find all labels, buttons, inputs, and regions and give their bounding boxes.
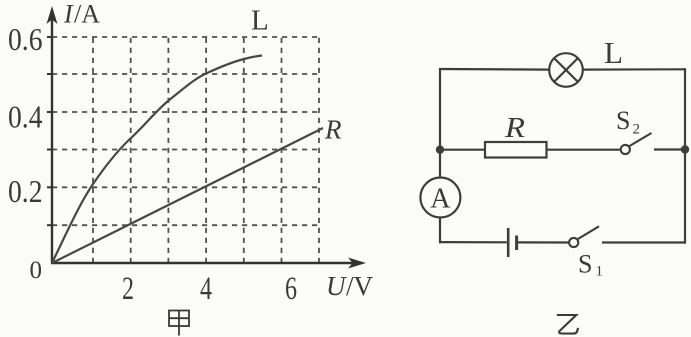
lamp L [549,53,583,87]
wire: ammeter bottom to bottom-left corner [439,218,441,244]
ammeter A [420,178,460,218]
caption 甲 [169,311,189,336]
switch S2 [621,133,652,154]
svg-text:4: 4 [200,271,212,307]
wire: left vertical, junction to ammeter top [439,150,441,178]
x-axis [51,262,358,264]
wire: top, left corner to lamp [439,68,549,71]
y-axis ticks [47,37,52,225]
svg-text:L: L [604,35,623,70]
svg-text:/A: /A [74,0,100,29]
wire: bottom, left corner to battery [439,241,507,243]
svg-text:R: R [504,113,525,144]
resistor R [485,142,547,158]
wire: middle branch, switch S2 to right junction [654,148,685,150]
svg-text:1: 1 [596,264,604,280]
svg-text:S: S [616,106,630,135]
svg-text:2: 2 [633,122,641,138]
grid dashed [52,37,319,263]
svg-text:6: 6 [285,271,297,307]
y-axis [51,14,53,264]
svg-text:2: 2 [122,271,134,307]
svg-text:R: R [324,115,342,145]
wire: middle branch, junction to resistor [440,149,485,151]
switch S1 [569,226,599,247]
wire: battery to switch S1 [518,241,569,243]
wire: switch S1 to bottom-right corner [602,241,686,243]
wire: left vertical, top corner to middle junction [439,69,441,151]
svg-text:/V: /V [346,271,374,301]
svg-text:0.4: 0.4 [8,99,43,135]
wire: right vertical, top corner to middle junction [684,68,686,149]
wire: right vertical, middle junction to bottom corner [684,150,686,244]
curve L (lamp I-U characteristic) [52,56,262,264]
svg-text:S: S [578,250,592,279]
battery [508,228,516,257]
x-axis arrow [348,258,366,269]
wire: middle branch, resistor to switch S2 [547,149,621,151]
svg-text:I: I [63,0,74,29]
wire: top, lamp to right corner [583,68,686,70]
svg-text:L: L [251,5,269,37]
svg-text:0.2: 0.2 [8,173,43,209]
svg-text:0.6: 0.6 [8,21,43,57]
junction node right [681,145,689,153]
svg-text:U: U [326,271,347,301]
svg-text:A: A [430,184,451,215]
junction node left [436,146,444,154]
line R (resistor I-U characteristic) [52,128,323,263]
caption 乙 [557,315,578,334]
svg-text:0: 0 [30,257,43,284]
y-axis arrow [47,6,58,24]
